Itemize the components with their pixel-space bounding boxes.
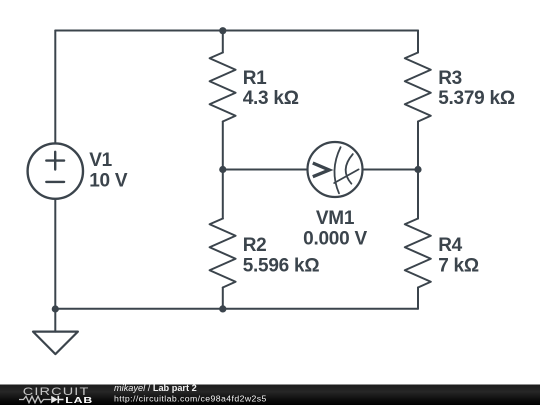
- resistor R3: [405, 31, 431, 170]
- node: bottom left junction (ground): [52, 305, 59, 312]
- CircuitLab logo diode: [51, 396, 58, 403]
- ground: [33, 309, 78, 354]
- svg-text:10 V: 10 V: [89, 171, 128, 192]
- wire middle left (bridge to voltmeter): [223, 169, 308, 171]
- wire left branch lower: [54, 199, 56, 309]
- resistor R2: [210, 170, 236, 309]
- node: bottom middle junction: [219, 305, 226, 312]
- node: mid right junction: [414, 166, 421, 173]
- wire left branch upper: [54, 31, 56, 144]
- svg-text:mikayel / Lab part 2: mikayel / Lab part 2: [114, 383, 197, 393]
- node: top junction: [219, 27, 226, 34]
- CircuitLab logo resistor squiggle: [19, 396, 51, 402]
- resistor R4: [405, 170, 431, 309]
- wire middle right (voltmeter to right branch): [362, 169, 418, 171]
- wire bottom rail: [55, 308, 418, 310]
- node: mid left junction: [219, 166, 226, 173]
- voltage source V1: [28, 143, 83, 198]
- svg-text:http://circuitlab.com/ce98a4fd: http://circuitlab.com/ce98a4fd2w2s5: [114, 393, 267, 403]
- svg-text:V1: V1: [89, 150, 112, 171]
- svg-text:VM1: VM1: [316, 208, 355, 229]
- resistor R1: [210, 31, 236, 170]
- svg-text:R2: R2: [243, 235, 267, 256]
- svg-text:0.000 V: 0.000 V: [303, 228, 367, 249]
- svg-text:LAB: LAB: [65, 397, 93, 405]
- svg-text:R1: R1: [243, 68, 267, 89]
- svg-text:5.379 kΩ: 5.379 kΩ: [438, 88, 515, 109]
- svg-text:R3: R3: [438, 68, 462, 89]
- voltmeter VM1: [308, 142, 363, 197]
- svg-text:5.596 kΩ: 5.596 kΩ: [243, 255, 320, 276]
- wire top rail: [55, 30, 418, 32]
- svg-text:R4: R4: [438, 235, 462, 256]
- svg-text:4.3 kΩ: 4.3 kΩ: [243, 88, 299, 109]
- svg-text:7 kΩ: 7 kΩ: [438, 255, 479, 276]
